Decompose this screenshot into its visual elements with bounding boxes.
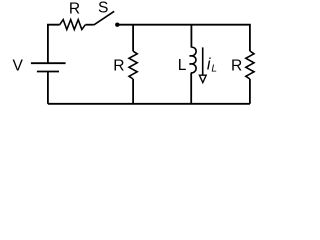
wire top rail and right side down to resistor [117,25,250,51]
svg-text:S: S [98,0,108,16]
resistor R (right branch) [246,51,254,79]
switch S blade [94,11,114,25]
battery V short plate [37,71,59,73]
svg-text:R: R [113,58,124,75]
wire inductor branch bottom lead [190,73,192,104]
wire middle branch bottom [132,79,134,104]
current arrow iL line [202,47,204,75]
svg-text:R: R [231,57,242,74]
svg-text:i: i [207,55,211,73]
current arrow iL head (open triangle) [199,75,206,82]
wire resistor to switch [85,24,93,26]
svg-text:L: L [211,63,217,74]
wire battery bottom to bottom rail [47,72,49,104]
svg-text:V: V [12,57,23,74]
inductor L coil [190,47,197,73]
resistor R (middle branch) [129,51,137,79]
wire inductor branch top lead [190,25,192,48]
battery V long plate [31,62,66,64]
switch terminal dot [115,23,119,27]
wire middle branch top (R branch lead) [132,25,134,52]
wire right branch bottom [249,79,251,104]
svg-text:L: L [178,57,187,74]
resistor R1 [60,20,86,30]
bottom rail [48,103,250,105]
wire top-left (battery top to resistor R1) [48,25,60,63]
svg-text:R: R [69,0,80,17]
